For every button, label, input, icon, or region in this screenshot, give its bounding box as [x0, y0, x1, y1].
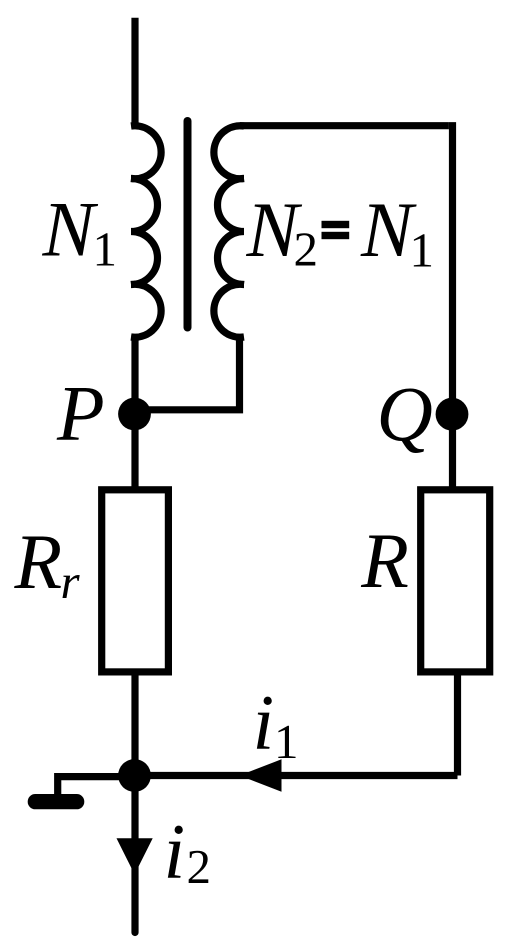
wire top rail from N2 to right rail [240, 122, 449, 129]
wire bottom rail from R to junction [135, 772, 458, 779]
inductor N2 secondary winding [214, 126, 244, 338]
wire R bottom down to bottom rail [454, 675, 461, 776]
wire right rail down to node Q [449, 122, 456, 414]
svg-text:2: 2 [187, 839, 212, 894]
node P junction dot [118, 398, 151, 431]
current arrow i1 pointing left [241, 760, 281, 791]
svg-text:1: 1 [274, 714, 299, 769]
svg-text:2: 2 [294, 222, 319, 277]
transformer core [184, 121, 192, 328]
wire junction down output lead i2 [131, 776, 138, 933]
wire N2 bottom lead down and left to node P [135, 335, 240, 410]
resistor Rr body [102, 490, 169, 672]
current arrow i2 pointing down [117, 839, 152, 874]
wire top lead into primary winding [131, 18, 138, 128]
svg-text:R: R [14, 518, 63, 605]
svg-text:N: N [360, 186, 417, 273]
svg-text:P: P [56, 370, 105, 457]
svg-text:R: R [360, 517, 409, 604]
wire node Q to resistor R [449, 414, 456, 487]
svg-text:i: i [164, 808, 186, 895]
svg-text:i: i [253, 679, 275, 766]
wire ground branch [58, 777, 135, 800]
svg-text:1: 1 [93, 221, 118, 276]
svg-text:1: 1 [410, 223, 435, 278]
wire N1 bottom lead down through node P to resistor Rr [131, 335, 138, 487]
wire Rr bottom to junction node [131, 675, 138, 776]
svg-text:Q: Q [377, 370, 433, 457]
resistor R body [421, 490, 490, 672]
bottom junction node dot [118, 759, 151, 792]
svg-text:r: r [61, 554, 81, 609]
inductor N1 primary winding [131, 126, 161, 338]
svg-text:N: N [42, 186, 99, 273]
node Q junction dot [436, 398, 469, 431]
ground bar [28, 794, 85, 809]
